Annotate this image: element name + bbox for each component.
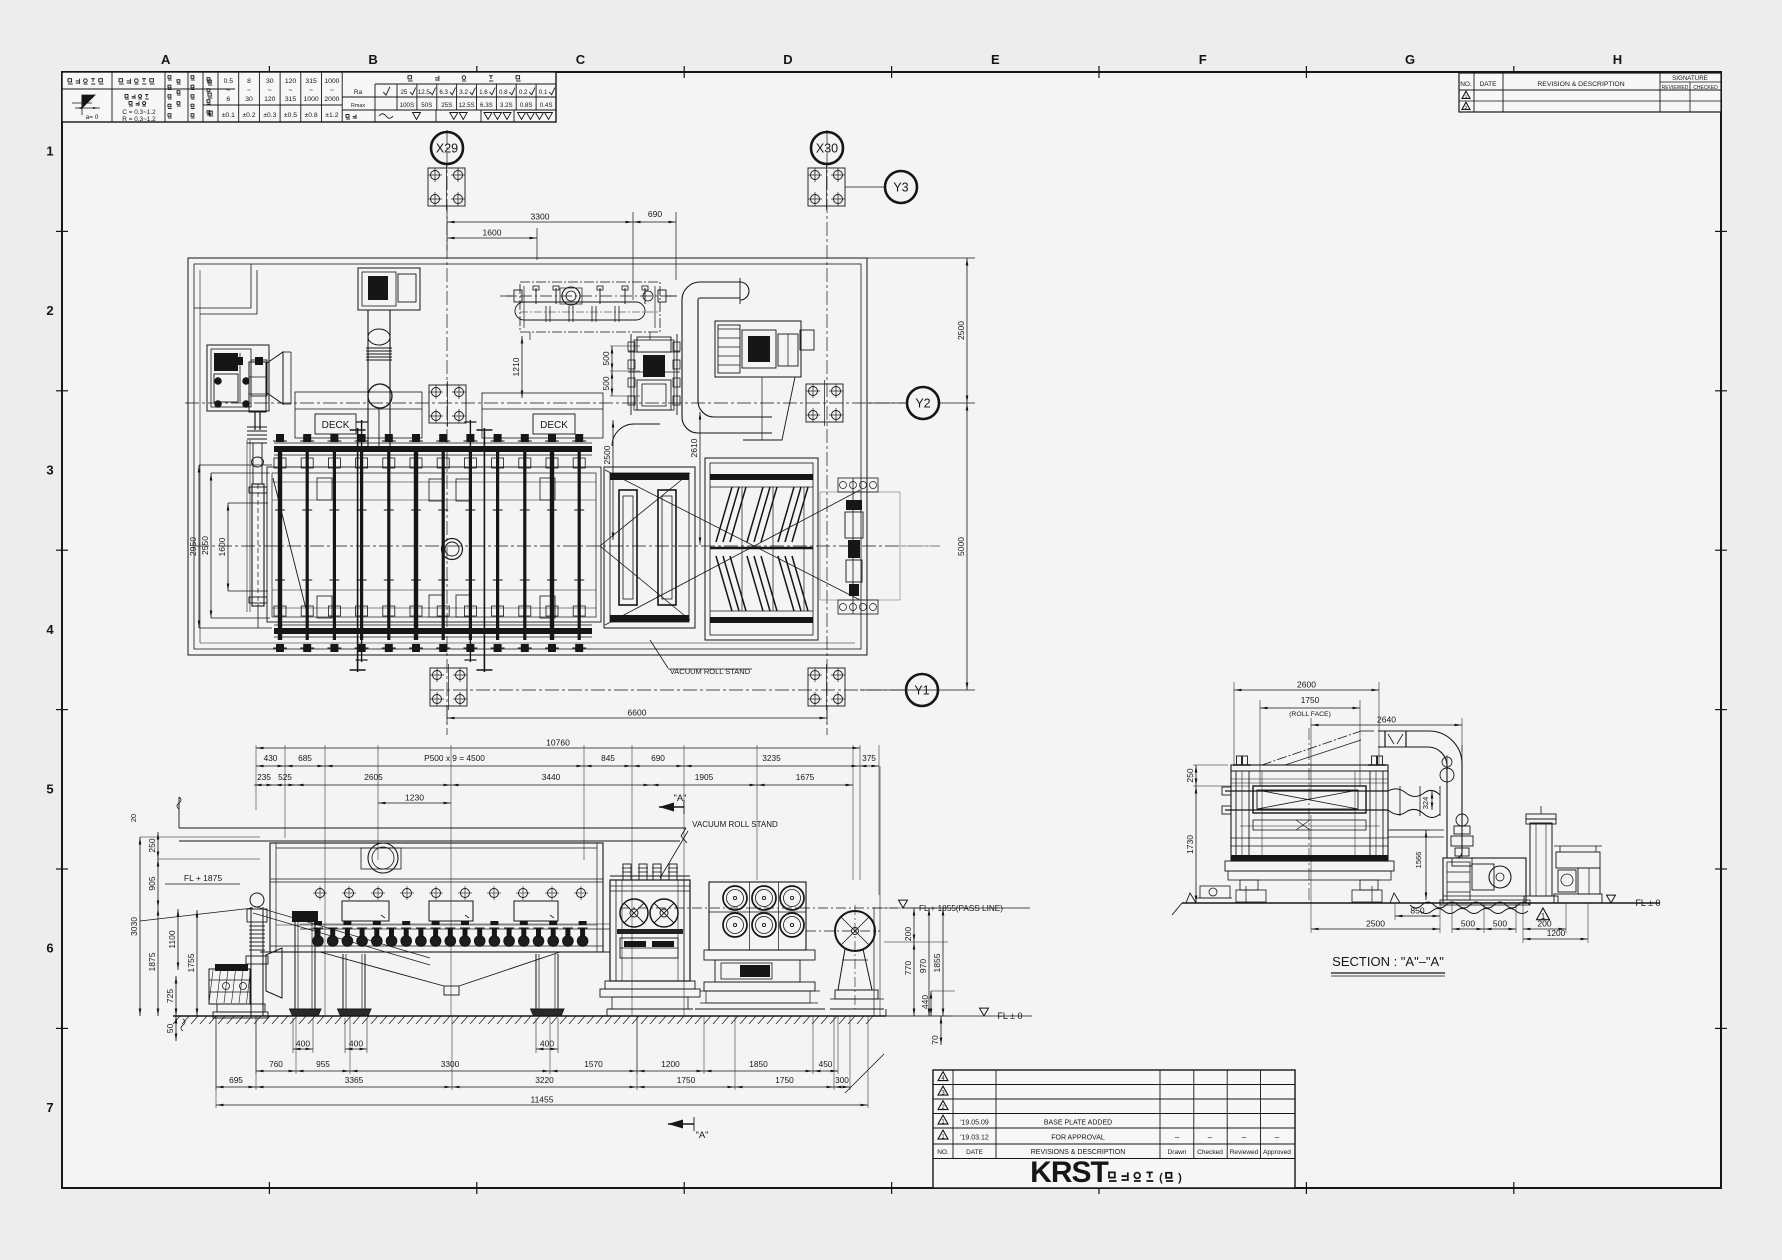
svg-text:850: 850 <box>1410 906 1424 916</box>
svg-text:±0.2: ±0.2 <box>242 112 255 119</box>
svg-text:1: 1 <box>1465 94 1468 100</box>
svg-text:2500: 2500 <box>1366 919 1385 929</box>
svg-text:6: 6 <box>226 96 230 103</box>
svg-text:G: G <box>1405 52 1415 67</box>
svg-text:6.3: 6.3 <box>439 89 448 96</box>
svg-text:0.2: 0.2 <box>519 89 528 96</box>
svg-text:1730: 1730 <box>1185 835 1195 854</box>
svg-text:450: 450 <box>819 1059 833 1069</box>
svg-text:–: – <box>1242 1133 1247 1142</box>
svg-text:1570: 1570 <box>584 1059 603 1069</box>
svg-text:VACUUM ROLL STAND: VACUUM ROLL STAND <box>670 667 751 676</box>
svg-text:250: 250 <box>147 838 157 852</box>
svg-text:2610: 2610 <box>689 438 699 457</box>
svg-text:50: 50 <box>165 1024 175 1034</box>
svg-text:6.3S: 6.3S <box>480 102 493 109</box>
svg-text:315: 315 <box>305 78 317 85</box>
svg-text:3.2: 3.2 <box>459 89 468 96</box>
svg-text:2: 2 <box>46 303 53 318</box>
svg-text:DECK: DECK <box>322 420 350 431</box>
svg-text:–: – <box>1275 1133 1280 1142</box>
svg-text:FOR APPROVAL: FOR APPROVAL <box>1051 1135 1105 1142</box>
svg-text:CHECKED: CHECKED <box>1693 85 1718 91</box>
svg-text:1600: 1600 <box>217 537 227 556</box>
svg-text:0.8S: 0.8S <box>520 102 533 109</box>
svg-text:P500 x 9 = 4500: P500 x 9 = 4500 <box>424 753 485 763</box>
svg-text:~: ~ <box>330 87 334 94</box>
svg-text:F: F <box>1199 52 1207 67</box>
svg-text:DATE: DATE <box>1480 81 1498 88</box>
svg-text:0.1: 0.1 <box>539 89 548 96</box>
svg-text:200: 200 <box>903 927 913 941</box>
svg-text:2950: 2950 <box>188 537 198 556</box>
svg-text:70: 70 <box>930 1035 940 1045</box>
svg-text:845: 845 <box>601 753 615 763</box>
svg-text:'19.05.09: '19.05.09 <box>960 1120 989 1127</box>
svg-text:725: 725 <box>165 989 175 1003</box>
svg-text:FL ± 0: FL ± 0 <box>1635 898 1660 908</box>
svg-text:905: 905 <box>147 876 157 890</box>
svg-text:SECTION : "A"–"A": SECTION : "A"–"A" <box>1332 954 1444 969</box>
svg-text:12.5S: 12.5S <box>459 102 475 109</box>
svg-text:375: 375 <box>862 753 876 763</box>
svg-text:1750: 1750 <box>1301 695 1320 705</box>
svg-text:E: E <box>991 52 1000 67</box>
svg-text:(ROLL FACE): (ROLL FACE) <box>1289 711 1331 718</box>
svg-text:Checked: Checked <box>1197 1149 1223 1156</box>
svg-text:695: 695 <box>229 1075 243 1085</box>
svg-text:2640: 2640 <box>1377 715 1396 725</box>
svg-text:1600: 1600 <box>483 228 502 238</box>
svg-text:1: 1 <box>46 144 53 159</box>
svg-text:Ra: Ra <box>354 89 363 96</box>
svg-text:1905: 1905 <box>695 772 714 782</box>
svg-text:2000: 2000 <box>324 96 339 103</box>
svg-text:1100: 1100 <box>167 930 177 949</box>
svg-text:4: 4 <box>46 622 54 637</box>
svg-text:±0.8: ±0.8 <box>305 112 318 119</box>
svg-text:1.6: 1.6 <box>479 89 488 96</box>
svg-text:1000: 1000 <box>324 78 339 85</box>
svg-text:Y3: Y3 <box>893 181 908 195</box>
svg-text:20: 20 <box>129 814 138 822</box>
svg-text:770: 770 <box>903 961 913 975</box>
svg-text:0.4S: 0.4S <box>540 102 553 109</box>
svg-text:5000: 5000 <box>956 537 966 556</box>
svg-text:500: 500 <box>601 351 611 365</box>
svg-text:3365: 3365 <box>345 1075 364 1085</box>
svg-text:50S: 50S <box>421 102 432 109</box>
svg-text:1750: 1750 <box>677 1075 696 1085</box>
svg-text:±0.1: ±0.1 <box>222 112 235 119</box>
svg-text:2600: 2600 <box>1297 680 1316 690</box>
svg-text:500: 500 <box>1493 919 1507 929</box>
svg-text:REVIEWED: REVIEWED <box>1662 85 1689 91</box>
svg-text:3: 3 <box>46 463 53 478</box>
svg-text:±0.5: ±0.5 <box>284 112 297 119</box>
svg-text:500: 500 <box>601 376 611 390</box>
svg-text:3030: 3030 <box>129 917 139 936</box>
svg-text:0.5: 0.5 <box>224 78 234 85</box>
svg-text:525: 525 <box>278 772 292 782</box>
svg-text:X30: X30 <box>816 142 838 156</box>
svg-text:315: 315 <box>285 96 297 103</box>
svg-text:440: 440 <box>920 995 930 1009</box>
svg-text:1230: 1230 <box>405 793 424 803</box>
svg-text:5: 5 <box>46 781 53 796</box>
svg-text:A: A <box>161 52 171 67</box>
svg-text:400: 400 <box>540 1039 554 1049</box>
svg-text:–: – <box>1175 1133 1180 1142</box>
svg-text:400: 400 <box>349 1039 363 1049</box>
svg-text:~: ~ <box>289 87 293 94</box>
svg-text:2500: 2500 <box>956 321 966 340</box>
svg-text:3300: 3300 <box>531 212 550 222</box>
svg-text:11455: 11455 <box>530 1095 553 1105</box>
svg-text:~: ~ <box>247 87 251 94</box>
svg-text:6: 6 <box>46 941 53 956</box>
svg-text:3235: 3235 <box>762 753 781 763</box>
svg-text:10760: 10760 <box>546 738 570 748</box>
svg-text:R = 0.3~1.2: R = 0.3~1.2 <box>122 116 156 123</box>
svg-text:FL ± 0: FL ± 0 <box>997 1011 1022 1021</box>
svg-text:2605: 2605 <box>364 772 383 782</box>
svg-text:–: – <box>1208 1133 1213 1142</box>
svg-text:300: 300 <box>835 1075 849 1085</box>
svg-text:250: 250 <box>1185 768 1195 782</box>
svg-text:"A": "A" <box>673 793 686 804</box>
svg-text:120: 120 <box>285 78 297 85</box>
svg-text:685: 685 <box>298 753 312 763</box>
svg-text:DECK: DECK <box>540 420 568 431</box>
svg-text:FL + 1875: FL + 1875 <box>184 873 222 883</box>
svg-text:0.8: 0.8 <box>499 89 508 96</box>
svg-text:NO.: NO. <box>1460 81 1472 88</box>
svg-text:30: 30 <box>245 96 253 103</box>
svg-text:3300: 3300 <box>441 1059 460 1069</box>
svg-text:2500: 2500 <box>602 445 612 464</box>
svg-text:3220: 3220 <box>535 1075 554 1085</box>
svg-text:Drawn: Drawn <box>1168 1149 1187 1156</box>
svg-text:KRST: KRST <box>1030 1156 1108 1189</box>
svg-text:Rmax: Rmax <box>351 103 365 109</box>
svg-text:C = 0.3~1.2: C = 0.3~1.2 <box>122 109 156 116</box>
svg-text:BASE PLATE ADDED: BASE PLATE ADDED <box>1044 1120 1112 1127</box>
svg-text:~: ~ <box>309 87 313 94</box>
svg-text:30: 30 <box>266 78 274 85</box>
svg-text:12.5: 12.5 <box>418 89 431 96</box>
svg-text:(: ( <box>1159 1172 1163 1184</box>
svg-text:1850: 1850 <box>749 1059 768 1069</box>
svg-text:760: 760 <box>269 1059 283 1069</box>
svg-text:H: H <box>1613 52 1622 67</box>
svg-text:3440: 3440 <box>542 772 561 782</box>
svg-text:±1.2: ±1.2 <box>325 112 338 119</box>
svg-text:1755: 1755 <box>186 953 196 972</box>
svg-text:690: 690 <box>648 209 662 219</box>
svg-text:Approved: Approved <box>1263 1149 1291 1156</box>
svg-text:NO.: NO. <box>937 1149 949 1156</box>
svg-text:1200: 1200 <box>661 1059 680 1069</box>
svg-text:7: 7 <box>46 1100 53 1115</box>
svg-text:100S: 100S <box>400 102 414 109</box>
svg-text:3.2S: 3.2S <box>500 102 513 109</box>
svg-text:235: 235 <box>257 772 271 782</box>
svg-text:2: 2 <box>1465 105 1468 111</box>
svg-text:): ) <box>1178 1172 1182 1184</box>
svg-text:430: 430 <box>264 753 278 763</box>
svg-text:8: 8 <box>247 78 251 85</box>
svg-text:REVISION & DESCRIPTION: REVISION & DESCRIPTION <box>1537 81 1624 88</box>
svg-text:±0.3: ±0.3 <box>263 112 276 119</box>
svg-text:120: 120 <box>264 96 276 103</box>
svg-text:SIGNATURE: SIGNATURE <box>1672 75 1708 82</box>
svg-text:324: 324 <box>1421 797 1430 810</box>
svg-text:1000: 1000 <box>304 96 319 103</box>
svg-text:VACUUM ROLL STAND: VACUUM ROLL STAND <box>692 820 778 829</box>
svg-text:500: 500 <box>1461 919 1475 929</box>
svg-text:25: 25 <box>400 89 407 96</box>
svg-text:1875: 1875 <box>147 952 157 971</box>
svg-text:1566: 1566 <box>1414 852 1423 869</box>
svg-text:C: C <box>576 52 586 67</box>
svg-text:6600: 6600 <box>628 708 647 718</box>
svg-text:~: ~ <box>226 87 230 94</box>
svg-text:X29: X29 <box>436 142 458 156</box>
svg-text:~: ~ <box>268 87 272 94</box>
svg-text:a= 0: a= 0 <box>86 114 99 121</box>
svg-text:25S: 25S <box>441 102 452 109</box>
svg-text:1855: 1855 <box>932 953 942 972</box>
svg-text:"A": "A" <box>695 1130 708 1141</box>
svg-text:REVISIONS & DESCRIPTION: REVISIONS & DESCRIPTION <box>1031 1149 1126 1156</box>
svg-text:B: B <box>368 52 377 67</box>
svg-text:1210: 1210 <box>511 357 521 376</box>
svg-text:FL + 1855(PASS LINE): FL + 1855(PASS LINE) <box>919 904 1003 913</box>
svg-text:Y2: Y2 <box>915 397 930 411</box>
svg-text:955: 955 <box>316 1059 330 1069</box>
svg-text:DATE: DATE <box>966 1149 984 1156</box>
svg-text:2550: 2550 <box>200 536 210 555</box>
svg-text:1200: 1200 <box>1547 928 1566 938</box>
svg-text:D: D <box>783 52 792 67</box>
svg-text:200: 200 <box>1537 919 1551 929</box>
svg-text:970: 970 <box>918 959 928 973</box>
svg-text:'19.03.12: '19.03.12 <box>960 1135 989 1142</box>
svg-text:Y1: Y1 <box>914 684 929 698</box>
svg-text:1675: 1675 <box>796 772 815 782</box>
svg-text:690: 690 <box>651 753 665 763</box>
svg-text:Reviewed: Reviewed <box>1230 1149 1259 1156</box>
svg-text:1750: 1750 <box>775 1075 794 1085</box>
svg-text:400: 400 <box>296 1039 310 1049</box>
